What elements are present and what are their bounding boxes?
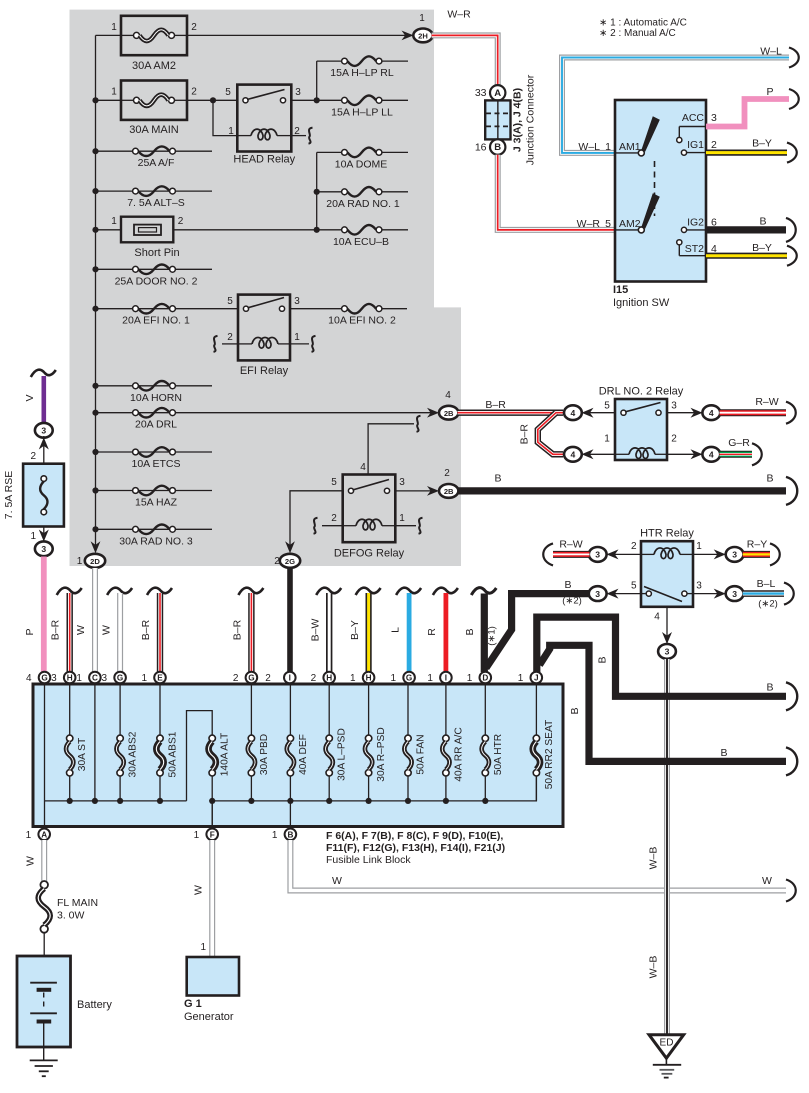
fuse 10A HORN	[130, 381, 182, 404]
generator G1	[187, 957, 239, 996]
svg-text:4: 4	[654, 612, 660, 623]
hook EFI relay pin2	[214, 336, 218, 352]
wire W-L	[562, 58, 789, 153]
curl B-Y ST2 end	[787, 246, 797, 266]
svg-text:H: H	[326, 674, 332, 683]
curl W col2	[107, 588, 132, 595]
svg-text:R: R	[426, 628, 438, 636]
svg-text:DRL NO. 2 Relay: DRL NO. 2 Relay	[599, 386, 684, 398]
junction bus y=100.3	[92, 97, 98, 103]
curl B path B end	[786, 747, 797, 775]
block top pin 3(H) x=69.7	[64, 672, 76, 684]
junction right bus x=445.9	[443, 798, 449, 804]
wire HEAD relay pin3 to fuse bus	[291, 99, 344, 101]
wire FL MAIN to battery	[43, 933, 45, 983]
svg-text:30A AM2: 30A AM2	[132, 60, 176, 72]
svg-text:B: B	[464, 628, 476, 635]
svg-text:20A DRL: 20A DRL	[135, 419, 177, 431]
wire block col 30A R&#8211;PSD top	[368, 684, 370, 735]
wire 30A MAIN to HEAD relay	[187, 99, 237, 101]
svg-text:1: 1	[30, 531, 36, 542]
svg-text:W: W	[332, 875, 342, 887]
svg-text:2: 2	[233, 673, 239, 684]
block top pin 4(G) x=44.5	[39, 672, 51, 684]
svg-text:W: W	[193, 885, 205, 895]
svg-text:2: 2	[311, 673, 317, 684]
svg-text:5: 5	[604, 401, 610, 412]
fuse 50A FAN	[404, 735, 411, 776]
svg-text:30A L–PSD: 30A L–PSD	[337, 728, 348, 781]
svg-text:1: 1	[604, 434, 610, 445]
svg-text:10A HORN: 10A HORN	[130, 392, 182, 404]
hook DEFOG pin2	[314, 518, 318, 534]
wire B-R to H	[66, 593, 72, 672]
wire 15A H-LP LL out	[379, 99, 408, 101]
svg-text:4: 4	[709, 408, 714, 418]
wire block col C	[94, 684, 96, 801]
svg-text:10A EFI NO. 2: 10A EFI NO. 2	[328, 315, 396, 327]
fuse 7.5A ALT-S	[127, 186, 185, 209]
wire B-R to G2	[248, 593, 254, 672]
wire B-Y from IG1	[706, 150, 787, 156]
block top pin 2(I) x=289.8	[284, 672, 296, 684]
hook HEAD relay pin2	[309, 128, 313, 144]
fuse 10A DOME	[335, 148, 388, 171]
fuse 30A ABS2	[116, 735, 123, 776]
ignition ACC contact	[677, 127, 706, 143]
wire 15A HAZ row	[96, 490, 213, 492]
wire DRL pin3 stub	[667, 412, 703, 414]
svg-text:1: 1	[399, 513, 405, 524]
fusible link FL MAIN	[38, 881, 50, 933]
svg-text:B: B	[494, 142, 501, 153]
svg-text:30A ABS2: 30A ABS2	[128, 731, 139, 777]
svg-text:30A R–PSD: 30A R–PSD	[376, 727, 387, 781]
wire HTR pin4	[666, 607, 668, 645]
wire B star1 to D	[486, 594, 592, 668]
svg-text:R–Y: R–Y	[747, 539, 767, 551]
fuse 20A DRL	[133, 408, 178, 431]
wire R-Y from HTR	[743, 551, 770, 558]
fuse block 7.5A RSE	[23, 464, 64, 527]
ignition IG2 contact	[681, 227, 706, 232]
svg-text:G: G	[248, 674, 254, 683]
wire 10A ETCS row	[96, 451, 213, 453]
wire DEFOG pin5 to 2G	[290, 491, 343, 546]
svg-text:W: W	[101, 625, 113, 635]
svg-text:B–Y: B–Y	[349, 620, 361, 640]
wire W to G	[117, 593, 123, 672]
wire R-W from DRL	[720, 409, 787, 416]
junction connector J3/J4 block	[485, 100, 510, 139]
wire block col 40A RR A/C top	[445, 684, 447, 735]
svg-text:B–W: B–W	[310, 619, 322, 642]
svg-text:15A H–LP LL: 15A H–LP LL	[331, 106, 393, 118]
battery	[17, 956, 71, 1047]
svg-text:5: 5	[225, 87, 231, 98]
connector A junction	[490, 85, 505, 100]
wire block col 40A DEF top	[289, 684, 291, 735]
svg-text:2: 2	[274, 556, 280, 567]
junction HEAD relay feed	[210, 97, 216, 103]
svg-text:I15: I15	[613, 284, 628, 296]
connector B junction	[490, 139, 505, 154]
wire W from A to FL MAIN	[41, 840, 47, 881]
connector 3 RSE top	[35, 423, 53, 438]
svg-text:W: W	[75, 625, 87, 635]
ground ED	[649, 1035, 684, 1078]
arrow HTR pin4 down	[662, 632, 672, 644]
connector 4 DRL pin2 side	[702, 447, 720, 462]
wire DRL pin1 stub	[581, 453, 615, 455]
svg-text:B–Y: B–Y	[752, 138, 772, 150]
svg-text:3: 3	[102, 673, 108, 684]
connector 2D	[85, 554, 105, 568]
block bottom pin 1(F)	[206, 829, 218, 841]
svg-text:2: 2	[631, 541, 637, 552]
fuse 50A HTR	[482, 735, 489, 776]
svg-text:L: L	[390, 627, 402, 633]
svg-text:3: 3	[595, 589, 600, 599]
junction right bus x=368.6	[366, 798, 372, 804]
svg-text:HEAD Relay: HEAD Relay	[233, 153, 295, 165]
fuse 30A RAD NO.3	[119, 525, 193, 548]
arrow to 2B lower	[427, 486, 439, 496]
wire 7.5A ALT-S row	[96, 190, 213, 192]
svg-text:B–R: B–R	[232, 619, 244, 640]
fuse 25A DOOR NO.2	[115, 265, 198, 288]
curl B lower end	[786, 477, 797, 505]
wire block col 50A FAN bottom	[407, 776, 409, 801]
curl V top	[31, 370, 56, 377]
ignition switch I15 body	[615, 100, 706, 282]
svg-text:G: G	[41, 674, 47, 683]
wire 10A HORN row	[96, 385, 213, 387]
svg-text:2D: 2D	[90, 557, 100, 566]
junction bus y=490.5	[92, 487, 98, 493]
arrow HTR pin3 out	[714, 589, 726, 599]
ignition AM1 contact and blade	[615, 116, 660, 156]
svg-text:V: V	[24, 394, 36, 401]
svg-text:3: 3	[295, 87, 301, 98]
arrow HTR pin1 out	[714, 549, 726, 559]
relay HTR	[641, 541, 693, 607]
svg-text:1: 1	[518, 673, 524, 684]
curl R-W HTR	[543, 543, 553, 565]
svg-text:1: 1	[141, 673, 147, 684]
wire DEFOG pin2 stub	[322, 525, 343, 527]
connector 3 HTR pin1	[726, 547, 744, 562]
ignition ST2 contact	[677, 240, 706, 256]
junction bus y=412.7	[92, 410, 98, 416]
block top pin 1(J) x=536.3	[531, 672, 543, 684]
wire B to D	[481, 594, 488, 673]
arrow HTR pin5 out	[607, 589, 619, 599]
fuse 15A H-LP RL	[330, 56, 394, 79]
arrow to 2D	[91, 541, 101, 553]
wire W-R from 2H	[432, 35, 498, 85]
junction left bus x=120.1	[117, 798, 123, 804]
svg-text:I: I	[289, 674, 291, 683]
wire block col 30A ABS2 bottom	[119, 776, 121, 801]
svg-text:B–R: B–R	[140, 619, 152, 640]
svg-text:25A DOOR NO. 2: 25A DOOR NO. 2	[115, 275, 198, 287]
svg-text:3: 3	[294, 296, 300, 307]
svg-text:Generator: Generator	[184, 1011, 234, 1023]
wire block col 30A ABS2 top	[119, 684, 121, 735]
svg-text:1: 1	[76, 673, 82, 684]
wire DRL pin5 stub	[581, 412, 615, 414]
svg-text:G–R: G–R	[728, 437, 750, 449]
wire block col 50A FAN top	[407, 684, 409, 735]
wire col F to bus	[211, 801, 213, 827]
fuse 50A RR2 SEAT	[533, 735, 540, 776]
svg-text:5: 5	[631, 581, 637, 592]
svg-text:4: 4	[445, 390, 451, 401]
svg-text:A: A	[494, 88, 501, 99]
svg-text:1: 1	[467, 673, 473, 684]
svg-text:30A PBD: 30A PBD	[259, 734, 270, 775]
wire 20A RAD NO.1 out	[379, 191, 408, 193]
arrow to 2B upper	[427, 408, 439, 418]
connector 4 DRL pin5 side	[564, 405, 582, 420]
wire block left bus	[45, 800, 187, 802]
wire DEFOG pin4	[368, 424, 414, 475]
svg-text:B: B	[569, 707, 581, 714]
block top pin 2(G) x=251.4	[246, 672, 258, 684]
junction left bus x=94.9	[92, 798, 98, 804]
svg-text:5: 5	[331, 477, 337, 488]
svg-text:ST2: ST2	[685, 243, 704, 255]
svg-text:(∗1): (∗1)	[487, 626, 498, 646]
curl B-L end	[784, 583, 794, 605]
svg-text:B: B	[287, 830, 293, 839]
svg-text:(∗2): (∗2)	[758, 599, 778, 610]
block top pin 1(H) x=368.6	[363, 672, 375, 684]
junction right bus x=408.0	[405, 798, 411, 804]
svg-text:(∗2): (∗2)	[562, 596, 582, 607]
svg-text:30A RAD NO. 3: 30A RAD NO. 3	[119, 535, 193, 547]
wire block col 30A L&#8211;PSD bottom	[328, 776, 330, 801]
fuse 30A L&#8211;PSD	[326, 735, 333, 776]
relay block panel background	[70, 10, 462, 566]
wire Short Pin to 10A ECU-B	[173, 229, 344, 231]
svg-text:4: 4	[26, 673, 32, 684]
svg-text:3: 3	[671, 401, 677, 412]
wire B-R branch to DRL pin1	[538, 413, 563, 455]
svg-text:2: 2	[671, 434, 677, 445]
wire EFI relay pin2 stub	[222, 343, 238, 345]
wire Short Pin row	[96, 229, 122, 231]
curl P end	[789, 89, 799, 109]
svg-text:W: W	[25, 856, 37, 866]
svg-text:ACC: ACC	[682, 112, 705, 124]
svg-text:B: B	[564, 579, 571, 591]
svg-text:B–R: B–R	[50, 619, 62, 640]
junction right bus x=251.4	[248, 798, 254, 804]
wire block col 40A RR A/C bottom	[445, 776, 447, 801]
svg-text:16: 16	[475, 142, 487, 154]
svg-text:2: 2	[444, 468, 450, 479]
svg-text:25A A/F: 25A A/F	[138, 157, 175, 169]
curl B-Y IG1 end	[787, 143, 797, 163]
fuse element 7.5A RSE	[40, 476, 47, 515]
fuse 10A ECU-B	[333, 225, 389, 248]
curl B-Y col	[356, 588, 381, 595]
svg-text:30A MAIN: 30A MAIN	[129, 124, 179, 136]
svg-text:H: H	[366, 674, 372, 683]
wire DOME branch vertical	[316, 152, 318, 229]
arrow RSE to conn 3 bottom	[39, 530, 49, 542]
svg-text:EFI Relay: EFI Relay	[240, 365, 289, 377]
svg-text:2B: 2B	[444, 409, 454, 418]
fuse 20A RAD NO.1	[326, 187, 400, 210]
wire block col 30A L&#8211;PSD top	[328, 684, 330, 735]
connector 3 RSE bottom	[35, 541, 53, 556]
svg-text:3: 3	[711, 112, 717, 124]
svg-text:30A ST: 30A ST	[77, 738, 88, 771]
junction left bus x=69.7	[67, 798, 73, 804]
svg-text:2: 2	[711, 139, 717, 151]
fuse 40A RR A/C	[442, 735, 449, 776]
ignition ganged switch dashed link	[654, 161, 656, 216]
block top pin 2(H) x=329.2	[323, 672, 335, 684]
curl B path A end	[786, 682, 797, 710]
wire 20A EFI NO.1 row	[96, 308, 239, 310]
svg-text:B–R: B–R	[519, 424, 531, 445]
svg-text:1: 1	[77, 556, 83, 567]
svg-text:1: 1	[26, 830, 32, 841]
wire block col A	[44, 684, 46, 801]
wire W from F to generator	[209, 840, 215, 957]
svg-text:3: 3	[41, 426, 46, 436]
svg-text:C: C	[92, 674, 98, 683]
svg-text:3: 3	[51, 673, 57, 684]
wire B-R to E	[157, 593, 163, 672]
svg-text:50A FAN: 50A FAN	[416, 734, 427, 774]
wire 30A MAIN row	[96, 99, 122, 101]
svg-text:4: 4	[360, 462, 366, 473]
wire DRL pin2 stub	[667, 453, 703, 455]
svg-text:10A ECU–B: 10A ECU–B	[333, 236, 389, 248]
junction 20A RAD NO.1	[314, 189, 320, 195]
wire B-Y from ST2	[706, 253, 787, 259]
svg-text:DEFOG Relay: DEFOG Relay	[334, 548, 405, 560]
junction right bus x=485.3	[482, 798, 488, 804]
svg-text:2: 2	[191, 87, 197, 98]
wire W-R from B to AM2	[498, 155, 615, 230]
arrow DRL pin2 out	[691, 449, 703, 459]
wire P from ACC	[706, 99, 789, 127]
svg-text:AM1: AM1	[619, 141, 641, 153]
wire V	[41, 376, 46, 424]
wire G-R from DRL	[720, 451, 753, 458]
wire col A to pin A	[44, 801, 46, 827]
curl R-Y end	[770, 543, 780, 565]
wire block right bus	[212, 776, 536, 801]
connector 3 HTR pin4	[658, 644, 676, 659]
wire 20A DRL row to 2B	[96, 412, 438, 414]
svg-text:1: 1	[200, 942, 206, 953]
connector 3 HTR pin3	[726, 586, 744, 601]
curl B IG2 end	[786, 218, 796, 242]
connector 3 HTR pin2	[589, 547, 607, 562]
svg-text:F11(F), F12(G), F13(H), F14(I): F11(F), F12(G), F13(H), F14(I), F21(J)	[326, 842, 505, 854]
svg-text:G: G	[117, 674, 123, 683]
svg-text:3: 3	[665, 647, 670, 657]
connector 4 DRL pin3 side	[702, 405, 720, 420]
wire HTR pin2 stub	[606, 553, 641, 555]
connector 2B upper	[439, 406, 458, 420]
svg-text:2B: 2B	[444, 487, 454, 496]
block top pin 1(E) x=160.0	[154, 672, 166, 684]
junction bus y=308.7	[92, 306, 98, 312]
wire 30A AM2 row	[96, 34, 122, 36]
wire RSE pin1	[43, 527, 45, 543]
wire W from B to right	[290, 840, 786, 891]
block bottom pin 1(A)	[38, 829, 50, 841]
svg-text:1: 1	[419, 13, 425, 24]
svg-text:ED: ED	[660, 1038, 674, 1049]
svg-text:F: F	[210, 830, 215, 839]
arrow HTR pin2 out	[607, 549, 619, 559]
fuse 15A HAZ	[133, 486, 178, 509]
curl G-R end	[752, 443, 762, 465]
curl B-W col	[316, 588, 341, 595]
svg-text:3. 0W: 3. 0W	[57, 910, 85, 922]
wire B from 2B lower	[458, 487, 787, 494]
wire P to block	[41, 557, 47, 673]
wire block col 50A HTR bottom	[484, 776, 486, 801]
svg-text:I: I	[445, 674, 447, 683]
junction bus y=151.2	[92, 148, 98, 154]
wire block col 30A R&#8211;PSD bottom	[368, 776, 370, 801]
svg-text:15A HAZ: 15A HAZ	[135, 497, 178, 509]
svg-text:J 3(A), J 4(B): J 3(A), J 4(B)	[512, 88, 524, 152]
short pin component	[121, 217, 173, 243]
hook DEFOG pin4	[417, 416, 421, 432]
svg-text:IG1: IG1	[687, 139, 704, 151]
fuse 15A H-LP LL	[331, 96, 393, 119]
curl R-W end	[786, 402, 796, 424]
wire RSE pin2	[43, 436, 45, 464]
svg-text:2: 2	[30, 451, 36, 462]
wire B-W to H2	[326, 593, 332, 672]
svg-text:50A RR2 SEAT: 50A RR2 SEAT	[544, 720, 555, 789]
curl B-R col2	[147, 588, 172, 595]
wire block col 30A PBD bottom	[250, 776, 252, 801]
svg-text:2: 2	[265, 673, 271, 684]
svg-text:W–R: W–R	[447, 9, 471, 21]
block bottom pin 1(B)	[285, 829, 297, 841]
wire B path A from J	[537, 617, 786, 696]
fuse 30A R&#8211;PSD	[365, 735, 372, 776]
svg-text:2H: 2H	[418, 32, 428, 41]
connector 2B lower	[439, 484, 458, 498]
curl L col	[396, 588, 421, 595]
svg-text:10A ETCS: 10A ETCS	[131, 458, 180, 470]
svg-text:2: 2	[331, 513, 337, 524]
svg-text:3: 3	[732, 589, 737, 599]
svg-text:1: 1	[111, 87, 117, 98]
arrow RSE to conn 3 top	[39, 438, 49, 450]
svg-text:4: 4	[709, 450, 714, 460]
connector 2H	[413, 29, 432, 43]
junction bus y=191.1	[92, 188, 98, 194]
svg-text:FL MAIN: FL MAIN	[57, 897, 98, 909]
curl W-L end	[789, 48, 799, 68]
wire L to G3	[407, 593, 412, 672]
